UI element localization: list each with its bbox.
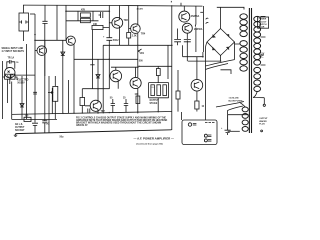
fuse F2 lead — [228, 106, 243, 115]
transistor TR7 — [90, 100, 101, 111]
transformer T1 winding lower — [242, 107, 248, 131]
wire R9 leads — [196, 91, 198, 112]
svg-text:BRACKET WITH MICA WASHERS USED: BRACKET WITH MICA WASHERS USED THROUGHOU… — [76, 121, 161, 124]
wire diode branch x98 — [97, 59, 99, 88]
resistor R13 — [127, 33, 131, 39]
svg-text:ELECTRO: ELECTRO — [17, 79, 28, 81]
bridge diode MR1 — [212, 34, 216, 38]
svg-text:ABOVE AT: ABOVE AT — [76, 124, 88, 127]
resistor R3 — [92, 25, 103, 29]
resistor R9 — [195, 101, 199, 109]
svg-text:OUTPUT: OUTPUT — [150, 100, 160, 102]
resistor R14 — [156, 69, 160, 76]
svg-text:4Ω L.S.: 4Ω L.S. — [15, 123, 23, 126]
wire vertical x66.8 — [68, 80, 70, 113]
transistor TR8 — [191, 79, 203, 91]
wire vertical x62.8 — [62, 40, 64, 113]
wire vertical x109.3 upper — [108, 5, 110, 37]
transistor TR10 output — [182, 23, 192, 33]
wire core bottom link — [228, 130, 240, 132]
transistor TR10 internal — [185, 25, 189, 31]
wire mains lead A — [194, 6, 197, 52]
input jack J1 — [5, 67, 15, 77]
wire vertical bus x35 — [34, 14, 36, 123]
wire heater tap — [253, 92, 264, 105]
wire horizontal y66 branch — [139, 66, 172, 82]
svg-text:A.C.: A.C. — [259, 56, 264, 59]
wire vertical x28.5 — [26, 44, 28, 119]
svg-text:(Continued from page 216): (Continued from page 216) — [136, 143, 163, 146]
svg-text:REAR: REAR — [259, 26, 265, 29]
wire trio bottom bar — [149, 98, 169, 112]
ground symbol — [14, 134, 17, 137]
transistor TR1 base wire — [35, 50, 37, 52]
svg-text:SIGNAL INPUT AND: SIGNAL INPUT AND — [2, 47, 24, 50]
wire bridge right lead — [235, 42, 240, 60]
potentiometer VR2 wiper arrow — [48, 92, 53, 94]
transistor TR5 internal — [113, 73, 118, 80]
wire R8 leads — [177, 70, 179, 112]
transistor TR5 — [110, 70, 122, 82]
transistor TR1 internal — [40, 48, 44, 54]
svg-text:TR3: TR3 — [124, 20, 129, 22]
resistor trio R7 — [163, 85, 167, 96]
resistor trio R5 — [151, 85, 155, 96]
chassis box terminal B — [204, 134, 207, 137]
capacitor C8 — [225, 130, 231, 135]
svg-text:10K: 10K — [93, 24, 98, 26]
transistor TR2 internal — [69, 38, 73, 43]
transistor TR9 collector wire — [183, 6, 185, 11]
resistor R15 — [136, 96, 140, 104]
resistor R12 — [24, 117, 31, 121]
transistor TR9 internal — [182, 13, 187, 20]
wire R13 leads — [128, 29, 130, 46]
wire lead to C1 can top — [23, 5, 25, 13]
wire ground bus — [16, 130, 172, 134]
fuse F3 — [206, 18, 209, 19]
wire bridge fan lead A — [206, 60, 235, 66]
resistor R10 left — [5, 74, 11, 79]
wire vertical x172 main — [171, 5, 173, 130]
wire lead from C1 can bottom — [23, 31, 25, 41]
wire horizontal y59.3 — [74, 58, 138, 60]
transistor TR7 leads — [85, 89, 98, 114]
resistor trio R6 — [157, 85, 161, 96]
wire winding lower top lead — [240, 103, 245, 107]
svg-text:50u: 50u — [60, 137, 65, 139]
terminal heater — [263, 104, 265, 106]
wire vertical x5.8 — [3, 77, 18, 103]
fuse F1 lead — [216, 102, 244, 108]
capacitor C5 — [88, 109, 90, 113]
capacitor C6 — [184, 39, 191, 41]
chassis box terminal A — [188, 123, 191, 126]
wire vertical x128.7 — [129, 5, 131, 28]
svg-text:2N456A: 2N456A — [194, 28, 203, 31]
wire long bus y113 — [12, 112, 172, 115]
svg-text:2.2K: 2.2K — [132, 36, 137, 38]
capacitor C11 — [42, 21, 47, 23]
text chassis top right marks — [205, 122, 215, 124]
chassis box terminal C — [204, 139, 207, 142]
capacitor C9 — [32, 123, 38, 133]
capacitor C4 plates — [106, 38, 112, 41]
svg-text:TR4: TR4 — [141, 33, 146, 36]
bridge rectifier outline — [207, 29, 235, 56]
transistor TR3 collector wire — [118, 5, 120, 19]
transistor TR9 output — [179, 11, 190, 22]
diode D1 — [61, 52, 65, 56]
transistor TR7 internal — [93, 103, 98, 110]
wire TR4 emitter vertical x137.8 upper — [137, 33, 139, 78]
capacitor C13 — [111, 99, 115, 113]
bridge diode MR4 — [226, 47, 229, 51]
bridge diode MR3 — [212, 47, 216, 51]
node tick x171.3 — [170, 1, 172, 3]
chassis terminal B marks — [208, 135, 211, 136]
terminal circle right — [261, 130, 263, 132]
wire chassis feed — [228, 115, 249, 130]
capacitor C2 input — [9, 60, 11, 64]
svg-text:47K: 47K — [81, 9, 86, 12]
wire vertical x103.2 — [102, 45, 104, 113]
wire screen to ground — [2, 61, 4, 119]
wire output socket run — [12, 118, 57, 120]
wire vertical x57 — [56, 5, 58, 40]
transistor TR4 collector wire — [137, 5, 139, 24]
svg-text:PLUG: PLUG — [259, 124, 265, 126]
wire horizontal y88.7 — [82, 88, 109, 90]
wire input coupling run — [7, 62, 35, 84]
wire top supply rail — [23, 5, 203, 6]
wire vertical x52.3 — [51, 88, 53, 114]
chassis box — [182, 120, 217, 145]
transistor TR4 — [131, 24, 141, 34]
capacitor C1 can — [19, 13, 29, 31]
wire dc minus branch — [183, 45, 203, 56]
svg-text:WAFER: WAFER — [259, 120, 267, 123]
wire horizontal y45.3 — [103, 44, 171, 46]
wire feedback loop upper — [66, 11, 109, 21]
transistor TR6 top lead — [135, 67, 137, 77]
svg-text:BLOW FUSES: BLOW FUSES — [229, 101, 243, 103]
wire vertical x45 lower — [44, 23, 46, 120]
svg-text:STAGE: STAGE — [150, 102, 158, 105]
wire secondary taps — [261, 16, 266, 65]
svg-text:SOCKET: SOCKET — [15, 130, 25, 132]
svg-text:1 0 1: 1 0 1 — [151, 87, 155, 89]
transistor TR3 — [112, 17, 123, 28]
wire R3 stubs — [92, 28, 109, 89]
wire bridge fan lead B — [206, 64, 229, 70]
resistor R4 — [80, 98, 85, 106]
transformer T1 secondary winding upper — [254, 16, 261, 37]
wire vertical x137.8 lower — [137, 89, 139, 114]
wire VR2 leads — [54, 76, 56, 119]
transformer T1 core — [249, 8, 251, 133]
wire box top lead x181.5 — [181, 112, 183, 120]
transistor TR3 base wire — [109, 22, 112, 24]
svg-text:4.7 INPUT SOCKETS: 4.7 INPUT SOCKETS — [2, 50, 25, 53]
wire mains branch tick — [200, 11, 203, 13]
wire heater branch — [221, 70, 232, 74]
wire bridge top lead — [217, 7, 244, 28]
node tick x92 — [90, 64, 94, 66]
svg-text:OUTPUT: OUTPUT — [15, 127, 25, 129]
wire C6 bottom lead — [186, 40, 188, 61]
wire TR2 emitter down — [73, 44, 75, 113]
wire horizontal y40.3 — [35, 39, 66, 41]
wire bridge bottom lead — [188, 56, 221, 62]
transistor TR6 internal — [133, 80, 138, 87]
resistor R11 left — [11, 74, 15, 79]
wire vertical x205.5 — [206, 42, 208, 120]
transistor TR8 top lead — [196, 57, 198, 80]
svg-text:VR1: VR1 — [140, 53, 145, 55]
svg-text:TR 1A: TR 1A — [8, 57, 15, 60]
resistor R8 — [176, 91, 180, 99]
capacitor C14 — [124, 99, 128, 112]
svg-text:50/12: 50/12 — [113, 40, 119, 42]
text selector legend box — [258, 17, 269, 28]
wire mains lead B — [202, 6, 204, 52]
diode D3 — [96, 75, 100, 79]
wire vertical x22 — [21, 76, 23, 119]
resistor R2 — [81, 18, 91, 22]
wire vertical x49 — [48, 76, 50, 133]
wire vertical x109.3 lower — [108, 40, 110, 89]
wire trio top bar — [149, 83, 169, 98]
transformer T1 primary winding mid — [240, 41, 247, 72]
input jack J1 pins — [7, 71, 13, 77]
potentiometer VR1 arrow — [138, 49, 141, 52]
capacitor C7 — [174, 39, 181, 41]
transistor TR3 internal — [115, 20, 120, 26]
transformer T1 secondary winding lower — [254, 67, 261, 91]
potentiometer VR2 — [53, 86, 58, 101]
wire TR10 emitter — [186, 33, 188, 39]
resistor R1 — [81, 13, 91, 17]
transistor TR1 — [37, 46, 47, 56]
transformer T1 secondary winding mid — [254, 38, 261, 65]
wire C7 leads — [177, 29, 179, 46]
text chassis terminal A label — [193, 124, 197, 125]
transistor TR5 leads — [116, 67, 118, 89]
chassis terminal C marks — [208, 140, 211, 141]
transistor TR3 emitter wire — [118, 26, 120, 45]
wire horizontal y67.2 — [111, 66, 138, 68]
svg-text:OUTPUT: OUTPUT — [259, 118, 268, 120]
transistor TR4 internal — [133, 26, 137, 32]
svg-text:50/12V: 50/12V — [17, 82, 25, 84]
transistor TR8 internal — [194, 82, 199, 89]
svg-text:115V: 115V — [259, 54, 265, 56]
wire vertical x11.7 — [11, 82, 13, 120]
transistor TR6 — [130, 77, 141, 88]
capacitor C10 — [42, 121, 47, 133]
fuse F4 — [206, 22, 209, 23]
wire R4 leads — [81, 89, 83, 114]
wire vertical x45 upper — [44, 5, 46, 21]
transformer T1 primary winding upper — [240, 14, 247, 37]
bridge diode MR2 — [226, 34, 229, 38]
wire TR2 base feed from rail — [65, 5, 67, 41]
transistor TR2 — [66, 36, 75, 45]
transistor TR1 collector wire — [44, 40, 46, 46]
capacitor C15 tick — [33, 92, 37, 94]
diode D4 — [20, 104, 24, 108]
svg-text:— A.F. POWER AMPLIFIER —: — A.F. POWER AMPLIFIER — — [134, 137, 175, 141]
transistor TR1 emitter wire — [44, 55, 46, 76]
node B+ tick above rail — [180, 3, 182, 6]
svg-text:2N456A: 2N456A — [191, 15, 200, 18]
wire box link — [30, 13, 35, 15]
wire vertical x168 — [167, 45, 169, 79]
capacitor C3 — [99, 12, 103, 18]
svg-text:1 A SLOW-: 1 A SLOW- — [229, 97, 240, 100]
capacitor C1 inner plates — [19, 20, 29, 23]
